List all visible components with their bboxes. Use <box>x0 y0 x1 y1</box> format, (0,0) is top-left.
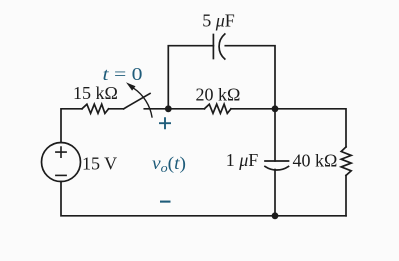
label vo(t) plus <box>159 117 171 129</box>
node a junction dot <box>165 105 172 112</box>
wire: 20k to node b <box>231 108 275 110</box>
voltage source 15 V <box>42 143 81 182</box>
wire: node b to right column top <box>275 109 346 147</box>
svg-text:5 μF: 5 μF <box>202 11 235 31</box>
svg-text:1 μF: 1 μF <box>226 150 259 170</box>
wire: node b down to 1uF <box>274 109 276 161</box>
resistor 20 kΩ <box>204 104 231 113</box>
bottom node junction dot <box>272 212 279 219</box>
wire: 1uF to bottom node <box>274 170 276 216</box>
svg-text:40 kΩ: 40 kΩ <box>293 151 338 171</box>
switch arc <box>134 88 152 117</box>
resistor 15 kΩ <box>82 104 109 113</box>
voltage source plus <box>56 147 66 157</box>
wire: switch contact to node a <box>144 108 168 110</box>
svg-text:vo(t): vo(t) <box>152 153 186 175</box>
capacitor 5 μF <box>213 34 224 59</box>
wire: bottom rail <box>61 182 346 216</box>
switch t=0 blade <box>124 94 150 109</box>
node b junction dot <box>272 105 279 112</box>
svg-text:20 kΩ: 20 kΩ <box>195 85 240 105</box>
svg-text:15 kΩ: 15 kΩ <box>73 83 118 103</box>
capacitor 1 μF <box>265 161 289 170</box>
switch arrowhead <box>126 82 136 90</box>
voltage source minus <box>56 174 66 176</box>
wire: 15k to switch pivot <box>109 108 124 110</box>
resistor 40 kΩ <box>341 147 351 176</box>
wire: source top to 15k resistor <box>61 109 82 143</box>
wire: 5uF to right top corner down <box>225 46 275 109</box>
svg-text:15 V: 15 V <box>82 154 117 174</box>
svg-text:t = 0: t = 0 <box>103 64 143 84</box>
label vo(t) minus <box>160 201 171 203</box>
wire: node a up to 5uF branch <box>168 46 213 109</box>
wire: 40k down to bottom right corner <box>345 175 347 215</box>
wire: node a to 20k <box>168 108 204 110</box>
